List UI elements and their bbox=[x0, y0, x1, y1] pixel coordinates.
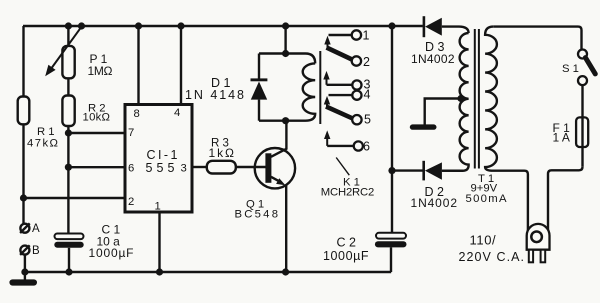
node pin 1 ground junction bbox=[156, 268, 163, 275]
svg-text:4: 4 bbox=[364, 87, 371, 101]
node junction pin2 / sensor A bbox=[20, 194, 27, 201]
wire pin 1 to ground rail bbox=[158, 212, 160, 272]
fuse F1 bbox=[576, 117, 588, 147]
svg-text:1000µF: 1000µF bbox=[89, 246, 134, 260]
diode D2 bbox=[392, 161, 463, 181]
svg-text:B: B bbox=[32, 245, 40, 257]
svg-text:6: 6 bbox=[128, 163, 134, 175]
label R1 value 47kΩ bbox=[27, 126, 58, 149]
wire pin 3 stub bbox=[192, 166, 207, 168]
svg-text:BC548: BC548 bbox=[235, 208, 279, 220]
node Q1 emitter ground junction bbox=[282, 268, 289, 275]
svg-text:8: 8 bbox=[134, 108, 140, 120]
label C2 1000µF bbox=[323, 235, 369, 263]
svg-text:1 A: 1 A bbox=[553, 130, 570, 144]
svg-text:1: 1 bbox=[363, 29, 370, 43]
svg-text:2: 2 bbox=[128, 196, 134, 208]
svg-text:1N4002: 1N4002 bbox=[411, 196, 458, 210]
wire bottom ground rail bbox=[24, 271, 392, 273]
wire P1 to R2 bbox=[67, 78, 69, 95]
mains plug bbox=[527, 224, 550, 262]
label D3 1N4002 bbox=[411, 40, 455, 66]
relay contact 3 arrow bbox=[323, 71, 329, 85]
wire top rail to S1 bbox=[493, 27, 581, 50]
wire P1 top feed bbox=[67, 26, 69, 46]
center tap 0V bar symbol bbox=[410, 124, 437, 129]
transformer T1 secondary winding bbox=[442, 33, 469, 171]
svg-text:MCH2RC2: MCH2RC2 bbox=[321, 186, 375, 198]
ground symbol bbox=[9, 272, 37, 286]
svg-text:6: 6 bbox=[363, 140, 370, 154]
wire pin 7 line bbox=[68, 132, 125, 134]
node pin 8 on rail bbox=[135, 22, 142, 29]
label K1 MCH2RC2 bbox=[321, 177, 375, 199]
svg-text:A: A bbox=[32, 223, 40, 235]
svg-text:1N 4148: 1N 4148 bbox=[185, 88, 245, 102]
wire terminal B to bottom rail bbox=[24, 254, 26, 272]
relay pole 1 pivot arrow bbox=[324, 36, 330, 50]
wire pin 8 feed bbox=[137, 26, 139, 105]
label CI-1 555 bbox=[146, 148, 178, 175]
relay contact lead 4 bbox=[329, 94, 353, 96]
svg-text:5: 5 bbox=[364, 112, 371, 126]
svg-text:500mA: 500mA bbox=[466, 193, 507, 205]
label Q1 BC548 bbox=[235, 199, 279, 221]
svg-text:1: 1 bbox=[155, 201, 161, 213]
relay contact circle 4 bbox=[352, 91, 361, 100]
relay pole 1 contact bar to 2 bbox=[327, 48, 353, 60]
node T1 center tap bbox=[457, 95, 464, 102]
label R3 1kΩ bbox=[209, 137, 235, 160]
svg-text:220V C.A.: 220V C.A. bbox=[459, 250, 525, 264]
wire center tap bbox=[425, 99, 461, 125]
resistor R1 bbox=[18, 97, 30, 125]
switch S1 bbox=[578, 50, 595, 86]
relay contact circle 3 bbox=[352, 80, 361, 89]
resistor R2 bbox=[62, 96, 74, 127]
relay contact 6 arrow bbox=[324, 130, 330, 146]
terminal A bbox=[20, 223, 30, 233]
svg-text:2: 2 bbox=[363, 55, 370, 69]
svg-text:4: 4 bbox=[174, 107, 180, 119]
relay contact lead 1 bbox=[329, 34, 352, 36]
relay K1 coil bbox=[259, 63, 315, 120]
wire left rail R1 bottom to terminal A bbox=[22, 124, 24, 224]
wire pin 4 feed bbox=[180, 26, 182, 105]
diode D3 bbox=[424, 16, 469, 37]
node junction pin 7 bbox=[65, 129, 72, 136]
node D2 junction bbox=[388, 167, 395, 174]
wire C1 to ground rail bbox=[68, 248, 70, 272]
node coil bottom junction bbox=[282, 117, 289, 124]
relay armature line bbox=[319, 51, 321, 124]
label 110/220V C.A. bbox=[459, 233, 525, 264]
node coil top junction bbox=[282, 50, 289, 57]
wire F1 down to plug bbox=[548, 167, 583, 236]
node dc bus on top rail bbox=[388, 22, 395, 29]
wire R3 to Q1 base bbox=[236, 166, 266, 168]
relay contact circle 6 bbox=[354, 141, 363, 150]
transformer T1 core bbox=[475, 29, 479, 169]
node C1 ground junction bbox=[65, 268, 72, 275]
relay contact circle 2 bbox=[352, 56, 361, 65]
resistor R3 bbox=[207, 161, 236, 174]
relay contact circle 5 bbox=[352, 115, 361, 124]
label F1 1A bbox=[553, 121, 571, 145]
transistor Q1 bbox=[255, 121, 295, 272]
diode D1 bbox=[251, 54, 268, 121]
svg-text:R 1: R 1 bbox=[37, 126, 55, 138]
label D2 1N4002 bbox=[411, 185, 458, 210]
label R2 10kΩ bbox=[83, 102, 111, 123]
svg-text:7: 7 bbox=[128, 127, 134, 139]
svg-text:1MΩ: 1MΩ bbox=[88, 64, 113, 78]
node P1 wiper on rail bbox=[78, 22, 85, 29]
relay contact lead 6 bbox=[327, 145, 354, 147]
svg-text:1N4002: 1N4002 bbox=[411, 52, 455, 66]
op-amp/timer CI-1 555 box bbox=[125, 105, 192, 213]
wire R2 bottom down to C1 bbox=[67, 126, 69, 234]
node pin 4 on rail bbox=[177, 22, 184, 29]
wire relay feed from rail bbox=[284, 26, 286, 54]
svg-text:1000µF: 1000µF bbox=[323, 249, 369, 263]
relay pole 2 pivot arrow bbox=[324, 96, 330, 108]
relay contact lead 3 bbox=[327, 84, 353, 86]
label C1 10 a 1000µF bbox=[89, 223, 134, 260]
label D1 1N4148 bbox=[185, 76, 245, 102]
transformer T1 primary winding bbox=[485, 27, 528, 236]
node relay feed on rail bbox=[282, 22, 289, 29]
svg-text:C 2: C 2 bbox=[337, 235, 357, 249]
potentiometer P1 bbox=[62, 46, 74, 78]
terminal B bbox=[20, 245, 30, 255]
capacitor C1 bbox=[54, 234, 83, 248]
wire coil top line bbox=[259, 54, 315, 64]
wire pin 2 line to 555 bbox=[24, 197, 126, 199]
wire pin 6 line bbox=[68, 166, 125, 168]
wire left rail top to R1 bbox=[22, 26, 24, 97]
relay pole 2 contact bar to 5 bbox=[326, 107, 352, 119]
svg-text:110/: 110/ bbox=[470, 233, 497, 248]
wire top supply rail bbox=[23, 25, 423, 27]
wire S1 to F1 bbox=[581, 85, 583, 167]
svg-text:555: 555 bbox=[146, 161, 175, 175]
K1 leader line bbox=[336, 158, 349, 176]
node P1 top on rail bbox=[65, 22, 72, 29]
svg-text:1kΩ: 1kΩ bbox=[209, 146, 235, 160]
label T1 9+9V 500mA bbox=[466, 173, 507, 205]
capacitor C2 bbox=[375, 233, 407, 248]
P1 wiper arrow bbox=[45, 27, 81, 76]
label P1 1MΩ bbox=[88, 52, 113, 78]
svg-text:S 1: S 1 bbox=[562, 63, 579, 75]
wire dc bus vertical x392 bbox=[391, 26, 393, 233]
wire C2 to ground rail corner bbox=[390, 247, 392, 272]
svg-text:47kΩ: 47kΩ bbox=[27, 137, 58, 149]
node junction B / ground bbox=[21, 268, 28, 275]
relay contact circle 1 bbox=[352, 30, 361, 39]
node junction pin 6 bbox=[65, 164, 72, 171]
svg-text:3: 3 bbox=[181, 163, 187, 175]
svg-text:10kΩ: 10kΩ bbox=[83, 111, 111, 123]
